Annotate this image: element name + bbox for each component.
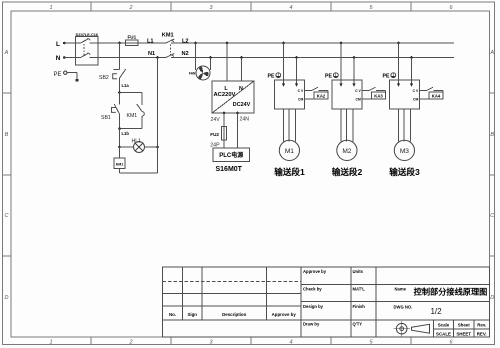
svg-text:DWG NO.: DWG NO. — [394, 305, 413, 310]
svg-text:4: 4 — [289, 5, 292, 11]
svg-text:M2: M2 — [342, 148, 351, 155]
svg-text:DC24V: DC24V — [233, 102, 251, 108]
svg-text:N2: N2 — [182, 51, 189, 57]
svg-text:Finish: Finish — [353, 304, 366, 309]
svg-text:控制部分接线原理图: 控制部分接线原理图 — [414, 286, 488, 296]
svg-text:KA3: KA3 — [374, 94, 383, 99]
svg-text:Design by: Design by — [303, 304, 324, 309]
svg-text:D: D — [5, 295, 9, 301]
svg-text:输送段3: 输送段3 — [389, 166, 420, 177]
svg-text:Units: Units — [353, 269, 364, 274]
svg-text:Draw by: Draw by — [303, 322, 320, 327]
svg-text:N: N — [56, 55, 61, 62]
svg-text:A: A — [4, 50, 9, 56]
svg-text:REV.: REV. — [477, 331, 487, 336]
svg-text:L1a: L1a — [122, 83, 130, 88]
svg-text:DZ47LE-C16: DZ47LE-C16 — [76, 33, 98, 37]
svg-text:L1: L1 — [147, 38, 154, 44]
svg-text:Description: Description — [222, 312, 246, 317]
svg-text:2: 2 — [128, 340, 132, 346]
svg-text:KA2: KA2 — [317, 94, 326, 99]
svg-text:输送段1: 输送段1 — [274, 166, 305, 177]
svg-text:FU1: FU1 — [127, 35, 136, 40]
svg-text:C V: C V — [298, 89, 304, 93]
svg-text:1: 1 — [49, 5, 52, 11]
svg-text:KM1: KM1 — [116, 162, 124, 166]
svg-text:B: B — [490, 132, 494, 138]
svg-text:N1: N1 — [148, 51, 155, 57]
svg-text:Approve by: Approve by — [303, 269, 327, 274]
svg-text:Approve by: Approve by — [272, 312, 297, 317]
svg-text:3: 3 — [209, 5, 213, 11]
svg-text:Scale: Scale — [438, 323, 450, 328]
svg-text:SCALE: SCALE — [436, 331, 451, 336]
svg-text:D: D — [490, 295, 494, 301]
svg-text:SHEET: SHEET — [456, 331, 471, 336]
svg-text:KM1: KM1 — [127, 113, 138, 119]
svg-text:L: L — [224, 86, 228, 92]
svg-text:24P: 24P — [210, 142, 220, 148]
svg-text:2: 2 — [128, 5, 132, 11]
svg-text:PLC电源: PLC电源 — [219, 151, 243, 159]
svg-text:SB1: SB1 — [101, 115, 111, 121]
svg-text:5: 5 — [369, 5, 373, 11]
svg-text:Check by: Check by — [303, 287, 322, 292]
svg-text:KM1: KM1 — [162, 32, 174, 38]
svg-text:KA4: KA4 — [432, 94, 441, 99]
svg-text:PE: PE — [268, 74, 275, 80]
svg-text:4: 4 — [289, 340, 292, 346]
svg-text:1: 1 — [49, 340, 52, 346]
svg-text:1/2: 1/2 — [430, 307, 442, 316]
svg-text:L2: L2 — [182, 38, 189, 44]
svg-text:HL1: HL1 — [132, 139, 142, 145]
svg-text:B: B — [5, 132, 9, 138]
svg-text:A: A — [489, 50, 494, 56]
svg-text:输送段2: 输送段2 — [332, 166, 363, 177]
svg-text:24V: 24V — [211, 117, 221, 123]
svg-text:M3: M3 — [400, 148, 409, 155]
svg-text:C: C — [5, 213, 9, 219]
svg-text:MAT'L: MAT'L — [353, 287, 366, 292]
svg-text:C: C — [490, 213, 494, 219]
svg-text:FU2: FU2 — [210, 132, 219, 137]
svg-text:PE: PE — [54, 72, 62, 78]
svg-text:AC220V: AC220V — [214, 92, 236, 98]
svg-text:CM: CM — [413, 97, 418, 101]
svg-text:No.: No. — [169, 312, 176, 317]
svg-text:N: N — [239, 86, 243, 92]
svg-text:FAN: FAN — [189, 72, 196, 76]
svg-text:Sheet: Sheet — [458, 323, 470, 328]
svg-text:PE: PE — [325, 74, 332, 80]
svg-text:24N: 24N — [240, 117, 250, 123]
svg-text:6: 6 — [449, 5, 453, 11]
svg-text:Sign: Sign — [187, 312, 197, 317]
svg-text:Q'TY: Q'TY — [353, 322, 363, 327]
svg-text:Name: Name — [395, 287, 407, 292]
svg-text:Rev.: Rev. — [477, 323, 486, 328]
svg-text:L: L — [56, 41, 60, 48]
svg-text:SB2: SB2 — [99, 75, 109, 81]
svg-text:S16M0T: S16M0T — [216, 166, 243, 173]
svg-text:CM: CM — [298, 97, 303, 101]
svg-text:C V: C V — [413, 89, 419, 93]
svg-text:L1b: L1b — [122, 131, 130, 136]
svg-text:M1: M1 — [285, 148, 294, 155]
svg-text:CM: CM — [356, 97, 361, 101]
svg-text:PE: PE — [383, 74, 390, 80]
svg-text:C V: C V — [355, 89, 361, 93]
